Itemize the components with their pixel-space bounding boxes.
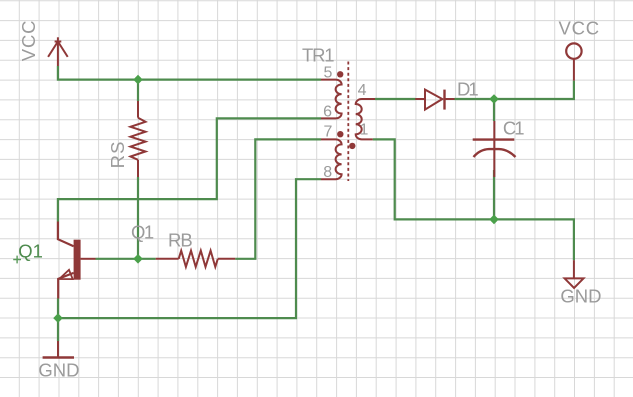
svg-text:6: 6 — [323, 104, 332, 121]
svg-text:1: 1 — [360, 122, 369, 139]
svg-text:Q1: Q1 — [18, 241, 43, 262]
svg-text:8: 8 — [323, 164, 332, 181]
svg-text:Q1: Q1 — [131, 222, 154, 243]
svg-text:RB: RB — [168, 229, 192, 250]
svg-text:5: 5 — [323, 65, 332, 82]
svg-text:D1: D1 — [457, 79, 478, 100]
svg-text:VCC: VCC — [18, 20, 39, 61]
svg-text:VCC: VCC — [559, 18, 600, 39]
svg-text:RS: RS — [107, 140, 128, 168]
svg-text:GND: GND — [38, 359, 79, 380]
svg-text:4: 4 — [358, 82, 367, 99]
svg-text:GND: GND — [560, 286, 601, 307]
svg-text:7: 7 — [323, 124, 332, 141]
svg-text:C1: C1 — [503, 117, 524, 138]
svg-text:TR1: TR1 — [302, 45, 334, 66]
